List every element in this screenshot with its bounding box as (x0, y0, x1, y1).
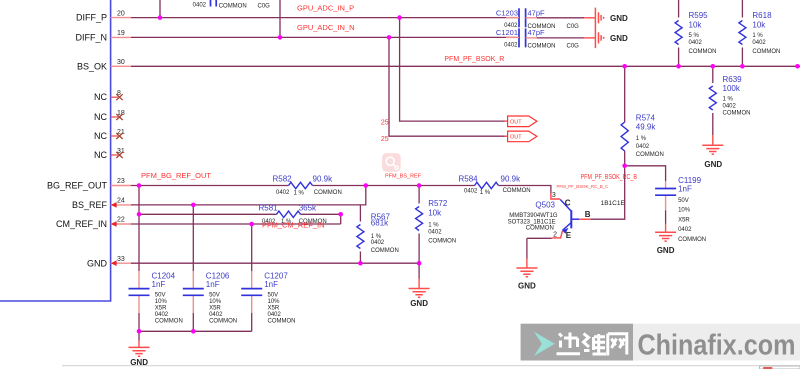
svg-text:0402: 0402 (678, 227, 692, 233)
svg-text:R582: R582 (273, 174, 293, 183)
junction rowC left (137, 212, 142, 217)
svg-text:0402: 0402 (268, 312, 282, 318)
svg-text:NC: NC (94, 112, 107, 122)
svg-text:COMMON: COMMON (428, 239, 456, 245)
svg-text:1 %: 1 % (636, 136, 647, 142)
ground right of C1203 (584, 8, 628, 28)
svg-text:MMBT3904WT1G: MMBT3904WT1G (509, 213, 558, 219)
svg-text:1 %: 1 % (428, 222, 439, 228)
ground under R639 (702, 135, 723, 169)
junction rowB / C1206 drop (191, 203, 196, 208)
svg-text:COMMON: COMMON (219, 3, 247, 9)
wire R574 top lead (624, 66, 626, 122)
svg-text:COMMON: COMMON (503, 188, 531, 194)
svg-text:5 %: 5 % (689, 33, 700, 39)
NC pin 31 stub + X (111, 152, 123, 158)
junction BSOK / R595 (676, 64, 681, 69)
pin 19 stub (111, 36, 131, 38)
port OUT lower (pin 25) (381, 131, 537, 143)
wire Q503 base to R574 bottom (590, 151, 624, 219)
svg-text:R595: R595 (689, 11, 709, 20)
svg-text:C1201: C1201 (496, 28, 518, 37)
svg-text:20: 20 (117, 11, 125, 18)
svg-text:1nF: 1nF (264, 280, 278, 289)
svg-text:R639: R639 (723, 75, 743, 84)
resistor R567 681k (357, 212, 399, 253)
svg-text:DIFF_P: DIFF_P (76, 13, 107, 23)
watermark bottom rule line (62, 365, 800, 367)
junction DIFF_N / OUT drop (387, 35, 392, 40)
svg-text:COMMON: COMMON (689, 49, 717, 55)
svg-text:33: 33 (117, 256, 125, 263)
svg-text:NC: NC (94, 150, 107, 160)
svg-text:25: 25 (381, 136, 389, 143)
svg-text:E: E (566, 231, 572, 240)
junction BSOK / R639 (711, 64, 716, 69)
svg-text:COMMON: COMMON (636, 152, 664, 158)
svg-text:10%: 10% (155, 299, 168, 305)
svg-text:PFM_BG_REF_OUT: PFM_BG_REF_OUT (141, 171, 211, 180)
ground right of C1201 (584, 28, 628, 48)
junction gnd row / R572 (417, 261, 422, 266)
svg-text:COMMON: COMMON (371, 248, 399, 254)
svg-text:25: 25 (381, 120, 389, 127)
svg-text:DIFF_N: DIFF_N (76, 32, 108, 42)
junction DIFF_P / top cap (158, 15, 163, 20)
svg-text:50V: 50V (678, 198, 689, 204)
junction BSOK / R618 (740, 64, 745, 69)
svg-text:COMMON: COMMON (678, 237, 706, 243)
wire BS_REF row B (131, 186, 366, 205)
svg-text:0402: 0402 (209, 312, 223, 318)
pin 33 input arrow (111, 260, 117, 266)
svg-text:50V: 50V (268, 293, 279, 299)
pin 33 stub (111, 262, 131, 264)
svg-text:X5R: X5R (155, 306, 167, 312)
svg-text:49.9k: 49.9k (636, 122, 657, 131)
svg-text:1nF: 1nF (678, 185, 692, 194)
svg-text:X5R: X5R (268, 306, 280, 312)
wire top cap right lead drop (279, 0, 281, 37)
ground under Q503 emitter (516, 259, 537, 291)
wire top cap left lead drop (159, 0, 161, 18)
svg-text:1 %: 1 % (371, 234, 382, 240)
svg-text:1B1C1E: 1B1C1E (601, 200, 626, 207)
wire GND pin row (131, 262, 419, 264)
IC U? boundary (left, partial) (0, 0, 111, 301)
junction base riser / C1199 branch (622, 164, 627, 169)
svg-text:R618: R618 (752, 11, 772, 20)
svg-text:GND: GND (610, 34, 628, 43)
svg-text:C: C (565, 199, 571, 208)
svg-text:100k: 100k (723, 84, 741, 93)
junction DIFF_N / top cap (278, 35, 283, 40)
svg-text:CM_REF_IN: CM_REF_IN (56, 219, 107, 229)
svg-text:1 %: 1 % (294, 190, 305, 196)
svg-text:BS_REF: BS_REF (72, 200, 108, 210)
svg-text:10k: 10k (752, 21, 766, 30)
svg-text:X5R: X5R (678, 217, 690, 223)
svg-text:GPU_ADC_IN_P: GPU_ADC_IN_P (297, 4, 354, 13)
capacitor C1201 47pF (496, 28, 579, 50)
resistor R574 49.9k (621, 113, 664, 157)
svg-text:COMMON: COMMON (752, 49, 780, 55)
svg-text:BS_OK: BS_OK (77, 61, 107, 71)
wire vertical BG_REF net to C1204 (138, 186, 140, 272)
svg-text:0402: 0402 (428, 229, 442, 235)
svg-text:681k: 681k (371, 219, 389, 228)
svg-text:PFM_PF_BSOK_RC_B: PFM_PF_BSOK_RC_B (581, 174, 638, 181)
svg-text:COMMON: COMMON (314, 190, 342, 196)
svg-text:0402: 0402 (193, 3, 207, 9)
wire C1203 right lead (536, 17, 584, 19)
svg-text:0402: 0402 (276, 190, 290, 196)
svg-text:0402: 0402 (689, 40, 703, 46)
junction rowA / C1204 drop (137, 183, 142, 188)
svg-text:1 %: 1 % (723, 97, 734, 103)
svg-text:OUT: OUT (510, 135, 522, 141)
svg-text:30: 30 (117, 59, 125, 66)
resistor R595 10k (675, 11, 716, 55)
svg-text:COMMON: COMMON (528, 44, 556, 50)
svg-text:10%: 10% (268, 299, 281, 305)
svg-text:1nF: 1nF (206, 280, 220, 289)
svg-text:47pF: 47pF (528, 9, 546, 18)
svg-text:0402: 0402 (752, 40, 766, 46)
svg-text:50V: 50V (155, 293, 166, 299)
svg-text:C0G: C0G (258, 3, 271, 9)
watermark banner band (521, 324, 800, 361)
svg-text:PFM_PF_BSOK_R: PFM_PF_BSOK_R (444, 56, 504, 63)
junction DIFF_P / OUT drop (397, 15, 402, 20)
svg-text:GPU_ADC_IN_N: GPU_ADC_IN_N (297, 23, 355, 32)
watermark banner dark box (521, 324, 633, 361)
capacitor at top edge (partial) (193, 0, 271, 9)
svg-text:OUT: OUT (510, 120, 522, 126)
capacitor C1207 1nF (241, 271, 295, 325)
pin 22 stub (111, 223, 131, 225)
svg-text:COMMON: COMMON (268, 319, 296, 325)
junction rowD / C1207 drop (249, 222, 254, 227)
wire branch to C1199 (625, 166, 666, 181)
resistor R639 100k (709, 75, 750, 117)
svg-text:PFM_BS_REF: PFM_BS_REF (385, 174, 422, 180)
svg-text:1nF: 1nF (152, 280, 166, 289)
pin 22 input arrow (111, 221, 117, 227)
transistor Q503 MMBT3904 (508, 192, 591, 240)
wire BG_REF_OUT row A (131, 186, 551, 194)
svg-text:PFM_PF_BSOK_RC_B_C: PFM_PF_BSOK_RC_B_C (557, 184, 609, 189)
wire R639 leads (712, 66, 714, 135)
svg-text:COMMON: COMMON (526, 225, 554, 231)
wire DIFF_N to OUT port 25 (389, 37, 505, 136)
svg-text:10%: 10% (678, 208, 691, 214)
svg-text:NC: NC (94, 92, 107, 102)
svg-text:GND: GND (610, 14, 628, 23)
svg-text:GND: GND (657, 246, 675, 255)
svg-text:B: B (585, 210, 591, 219)
wire BS_OK / PFM_PF_BSOK_R row (131, 65, 800, 67)
NC pin 21 stub + X (111, 133, 123, 139)
junction gnd row / R567 (358, 261, 363, 266)
wire DIFF_P row (131, 17, 519, 19)
svg-text:0402: 0402 (464, 189, 478, 195)
svg-text:90.9k: 90.9k (313, 174, 334, 183)
resistor R582 90.9k (273, 174, 342, 196)
svg-text:PFM_CM_REF_IN: PFM_CM_REF_IN (262, 220, 325, 229)
wire R618 leads (741, 0, 743, 66)
svg-text:R584: R584 (459, 175, 479, 184)
resistor R584 90.9k (459, 175, 531, 196)
wire R572 leads (418, 186, 420, 279)
svg-text:2: 2 (553, 232, 557, 239)
junction rowA / R572 (417, 183, 422, 188)
junction cap rail C1206 (191, 329, 196, 334)
svg-text:COMMON: COMMON (723, 111, 751, 117)
watermark chinese characters (drawn) (557, 333, 627, 356)
wire cap gnd rail (139, 331, 252, 340)
svg-text:0402: 0402 (155, 312, 169, 318)
svg-text:19: 19 (117, 30, 125, 37)
svg-text:NC: NC (94, 131, 107, 141)
svg-text:COMMON: COMMON (209, 319, 237, 325)
NC pin 8 stub + X (111, 94, 123, 100)
capacitor C1204 1nF (129, 271, 183, 325)
junction BSOK / R574 (622, 64, 627, 69)
pin 24 stub (111, 204, 131, 206)
svg-text:GND: GND (518, 282, 536, 291)
svg-text:Chinafix.com: Chinafix.com (638, 330, 796, 362)
pin 24 input arrow (111, 202, 117, 208)
capacitor C1199 1nF (655, 176, 706, 243)
pin 23 stub (111, 185, 131, 187)
svg-text:Q503: Q503 (535, 201, 555, 210)
resistor R581 365k (259, 204, 327, 226)
wire CM_REF_IN row D (131, 223, 341, 225)
svg-text:GND: GND (410, 299, 428, 308)
svg-text:C0G: C0G (567, 24, 580, 30)
wire R595 leads (678, 0, 680, 66)
resistor R618 10k (739, 11, 781, 55)
junction rowA / BS_REF riser (364, 183, 369, 188)
wire C1204 lower lead to gnd rail (138, 313, 140, 331)
wire vertical BS_REF net to C1206 (192, 205, 194, 271)
svg-text:10k: 10k (689, 21, 703, 30)
junction rowC right (338, 212, 343, 217)
svg-text:50V: 50V (209, 293, 220, 299)
resistor R572 10k (416, 199, 457, 245)
svg-text:10%: 10% (209, 299, 222, 305)
svg-text:3: 3 (552, 192, 556, 199)
svg-text:1 %: 1 % (752, 33, 763, 39)
svg-text:0402: 0402 (504, 43, 518, 49)
pin 20 stub (111, 17, 131, 19)
NC pin 18 stub + X (111, 114, 123, 120)
wire C1206 lower lead to gnd rail (192, 313, 194, 331)
svg-text:365k: 365k (299, 204, 317, 213)
wire C1207 lower lead to gnd rail (251, 313, 253, 331)
svg-text:C0G: C0G (567, 44, 580, 50)
wire R581 row C (139, 214, 341, 224)
svg-text:0402: 0402 (371, 240, 385, 246)
ground under GND pin row (409, 279, 430, 308)
svg-text:BG_REF_OUT: BG_REF_OUT (47, 181, 108, 191)
svg-text:47pF: 47pF (528, 28, 546, 37)
bottom right mini window (760, 366, 800, 369)
svg-text:R581: R581 (259, 204, 279, 213)
wire DIFF_P to OUT port 25 (400, 18, 505, 122)
wire C1199 lower lead (665, 210, 667, 224)
wire DIFF_N row (131, 36, 519, 38)
svg-text:0402: 0402 (723, 104, 737, 110)
svg-text:R572: R572 (428, 199, 448, 208)
svg-text:COMMON: COMMON (155, 319, 183, 325)
svg-text:R574: R574 (636, 113, 656, 122)
wire C1201 right lead (536, 37, 584, 39)
junction cap rail C1204 (137, 329, 142, 334)
svg-text:C1203: C1203 (496, 9, 518, 18)
watermark chevron logo (534, 332, 555, 356)
svg-text:GND: GND (87, 258, 108, 268)
svg-text:10k: 10k (428, 208, 442, 217)
capacitor C1203 47pF (496, 8, 579, 30)
svg-text:X5R: X5R (209, 306, 221, 312)
ground under C1204 rail (129, 341, 150, 367)
pin 30 stub (111, 65, 131, 67)
junction BSOK right edge (795, 64, 800, 69)
svg-text:22: 22 (117, 217, 125, 224)
svg-text:24: 24 (117, 197, 125, 204)
wire R567 leads (359, 205, 361, 263)
wire vertical CM_REF net to C1207 (251, 224, 253, 271)
watermark magnifier box (382, 153, 401, 172)
svg-text:23: 23 (117, 178, 125, 185)
capacitor C1206 1nF (183, 271, 237, 325)
svg-text:1 %: 1 % (480, 190, 491, 196)
ground under C1199 (655, 224, 676, 256)
svg-text:90.9k: 90.9k (501, 175, 522, 184)
svg-text:GND: GND (704, 160, 722, 169)
svg-text:0402: 0402 (636, 144, 650, 150)
port OUT upper (pin 25) (381, 116, 537, 127)
wire Q503 emitter to gnd (527, 238, 552, 258)
